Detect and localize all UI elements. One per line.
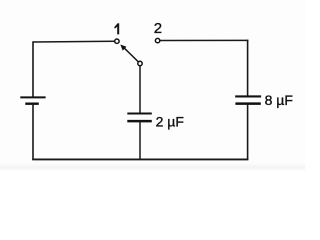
capacitor 2uF bottom plate (127, 120, 152, 123)
switch contact node 2 (open circle) (155, 38, 159, 42)
wire left vertical lower (battery to bottom wire) (32, 104, 34, 160)
capacitor 2uF top plate (127, 113, 152, 115)
wire left vertical (top corner down to battery) (32, 41, 34, 97)
svg-text:2 µF: 2 µF (156, 113, 184, 129)
battery B (short plate) (25, 102, 39, 104)
wire top-right (from switch contact 2 to top-right corner) (160, 39, 248, 41)
capacitor 8uF bottom plate (235, 102, 260, 105)
switch arm arrowhead (120, 45, 126, 51)
wire middle vertical lower (2uF capacitor to bottom wire) (139, 121, 141, 160)
battery B (long plate) (20, 96, 45, 98)
svg-text:8 µF: 8 µF (265, 92, 293, 108)
label 1 (switch position 1) (114, 23, 119, 34)
wire bottom (left corner to right corner) (32, 158, 248, 160)
wire right vertical upper (top-right corner down to 8uF capacitor) (247, 40, 249, 97)
wire right vertical lower (8uF capacitor to bottom wire) (247, 104, 249, 160)
switch arm (blade from pivot toward contact 1) (124, 48, 138, 62)
switch pivot node (open circle) (138, 61, 142, 65)
wire middle vertical upper (switch pivot down to 2uF capacitor) (139, 66, 141, 114)
wire top-left (from left corner to switch contact 1) (33, 40, 115, 43)
switch contact node 1 (open circle) (115, 39, 119, 43)
svg-text:2: 2 (154, 20, 162, 37)
capacitor 8uF top plate (235, 95, 261, 97)
